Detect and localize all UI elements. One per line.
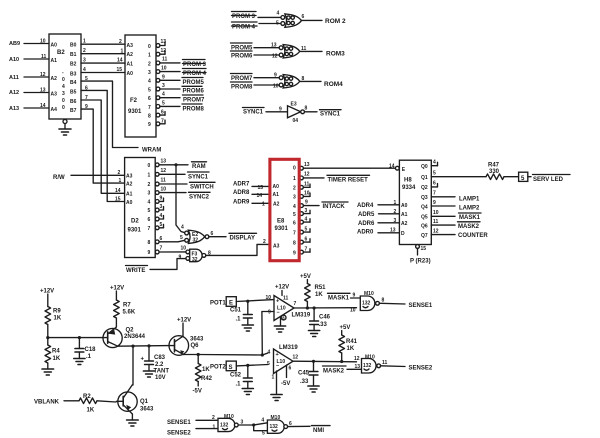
svg-text:6: 6 [161,110,164,116]
svg-text:9: 9 [353,293,356,299]
svg-text:.33: .33 [319,322,328,328]
H8 Q7 (pin 12) wire to COUNTER [431,228,455,234]
svg-text:ROM3: ROM3 [326,51,345,58]
IC B2 (decoder) body [49,34,81,119]
wire SENSE2 to gate M10c pin 1 [196,428,218,430]
svg-text:Q2: Q2 [126,328,135,334]
ground (C18) [74,359,85,365]
svg-text:5: 5 [293,212,296,218]
svg-text:MASK2: MASK2 [323,368,345,374]
transistor Q6 3643 [169,336,204,356]
svg-text:15: 15 [258,185,264,191]
net label SYNC2 [189,192,211,200]
net label SWITCH [190,182,216,190]
svg-text:B2: B2 [57,50,65,56]
svg-text:4: 4 [433,160,436,166]
svg-text:TIMER RESET: TIMER RESET [328,178,369,184]
resistor R7 5.6K [114,300,136,327]
svg-text:4: 4 [83,67,86,73]
capacitor C52 .1 [230,365,252,388]
svg-text:SYNC1: SYNC1 [188,174,209,180]
svg-text:ROM 2: ROM 2 [325,18,346,25]
svg-text:3: 3 [83,58,86,64]
wire MASK2 to gate M10b pin 13 [347,368,362,370]
svg-text:SENSE1: SENSE1 [409,303,433,309]
wire base rail to Q2 [48,337,103,339]
svg-text:6: 6 [289,421,292,427]
wire gate output pin 6 to ROM 2 [302,19,322,21]
emitter rail to op-amps [198,354,262,357]
svg-text:D2: D2 [131,219,139,225]
svg-text:.1: .1 [236,382,242,388]
ground (C45) [308,386,319,392]
wire down to Q1 collector [131,346,134,385]
wire E2 output to DISPLAY [209,236,226,238]
svg-text:C52: C52 [230,373,242,379]
net label PROM7 (at gate D8c) [231,74,254,83]
net label MASK2 (gate input) [323,366,347,374]
capacitor C46 .33 [310,308,331,331]
ground (C46) [309,331,320,337]
svg-text:A0: A0 [401,203,408,209]
svg-text:SYNC1: SYNC1 [320,112,341,118]
svg-text:5: 5 [267,361,270,367]
svg-text:A0: A0 [126,200,133,206]
svg-text:7: 7 [161,119,164,125]
inverter E3 (7404) [288,102,305,125]
connector box 5 [519,172,528,182]
svg-text:A0: A0 [51,43,58,49]
net label RAM [192,162,207,170]
red highlight box around E8 [270,159,299,260]
ground (C51) [242,325,253,331]
svg-text:L10: L10 [277,359,286,365]
svg-text:6: 6 [85,86,88,92]
svg-text:6: 6 [302,14,305,20]
resistor R47 330 [486,162,519,179]
svg-text:3: 3 [162,83,165,89]
svg-text:5: 5 [305,227,308,233]
svg-text:SYNC1: SYNC1 [243,110,264,116]
wire AB9 to B2 pin 10 [24,43,49,45]
svg-text:R9: R9 [53,309,61,315]
svg-text:H8: H8 [404,178,412,184]
svg-text:0: 0 [62,105,65,111]
wire B2.B7 down to D2.A2 [81,109,125,183]
svg-text:0: 0 [62,77,65,83]
svg-text:6: 6 [148,96,151,102]
D2 pin 9 stub (output 4) [155,196,163,204]
svg-text:C83: C83 [154,355,166,361]
net label PROM5 (at gate D8b) [231,43,254,51]
wire pin 9 from emitter rail [262,312,274,356]
svg-text:E8: E8 [277,218,285,224]
svg-text:11: 11 [283,296,289,302]
svg-text:9: 9 [305,199,308,205]
svg-text:6: 6 [160,236,163,242]
H8 Q1 (pin 5) wire to R47 [431,171,486,177]
wire ADR4 to H8.A0 pin 1 [378,204,399,206]
wire B2.B1 to F2.A2 (pin 1) [81,53,125,55]
svg-text:8: 8 [148,114,151,120]
svg-text:+: + [276,299,279,305]
ground (Q1) [127,420,139,426]
svg-text:0: 0 [293,165,296,171]
wire A11 to B2 pin 12 [24,76,49,78]
svg-text:3: 3 [148,70,151,76]
svg-text:Q7: Q7 [421,233,428,239]
svg-text:10: 10 [161,66,167,72]
capacitor C18 .1 [75,338,96,360]
wire op-amp1 pin 11 to +12V [275,285,289,302]
gate F3 (7432, bubbled in/out) to E8.A3 [179,246,212,263]
power +12V (R7 top) [110,286,124,301]
svg-text:P (R23): P (R23) [410,259,431,265]
svg-text:5: 5 [433,171,436,177]
svg-text:6: 6 [293,220,296,226]
net label PROM6 [182,86,205,94]
svg-text:R47: R47 [488,162,500,168]
H8 enable pin 14 bubble [389,163,399,170]
net label PROM7 [183,95,206,103]
wire R/W to D2.A3 pin 2 [71,174,125,176]
svg-text:DISPLAY: DISPLAY [230,236,255,242]
svg-text:AB9: AB9 [9,41,20,47]
svg-text:4: 4 [268,350,271,356]
svg-text:PROM6: PROM6 [183,89,205,95]
svg-text:E: E [229,301,233,307]
capacitor C51 .1 [230,301,252,325]
svg-text:9: 9 [148,122,151,128]
svg-text:PROM6: PROM6 [231,53,253,59]
svg-text:Q6: Q6 [421,223,428,229]
svg-text:A13: A13 [9,106,19,112]
svg-text:11: 11 [304,182,310,188]
svg-text:WRITE: WRITE [126,268,145,274]
svg-text:2: 2 [148,182,151,188]
D2 output row digits 0-9 [148,163,151,256]
svg-text:13: 13 [355,364,361,370]
D2 pin 5 stub (output 7) [155,222,163,230]
D2 output 9 (pin 7) wire to gate F3 pin 10 [155,246,186,254]
svg-text:A1: A1 [126,192,133,198]
svg-text:SENSE1: SENSE1 [167,420,191,426]
net label MASK2 [458,222,481,230]
wire gate M10d output pin 6 to NMI [288,425,310,427]
op-amp U-L10b LM319 [267,345,298,374]
resistor R41 1K [339,335,358,362]
op-amp2 pin 1 to ground [271,371,282,401]
svg-text:A3: A3 [273,243,280,249]
wire B2.B3 to F2.A0 (pin 15) [81,72,125,74]
svg-text:2: 2 [118,170,121,176]
svg-text:1: 1 [83,39,86,45]
svg-text:1: 1 [213,425,216,431]
svg-text:PROM5: PROM5 [183,80,205,86]
wire Q6 emitter to junction [184,354,199,356]
F2 pin 11 output 2 wire to PROM 3 [156,57,180,65]
svg-text:0: 0 [148,163,151,169]
svg-text:SYNC2: SYNC2 [189,195,210,201]
svg-text:12: 12 [40,72,46,78]
wire gate output pin 11 to ROM3 [300,50,322,52]
svg-text:+5V: +5V [300,274,311,280]
net label WRITE [126,266,148,274]
svg-text:1K: 1K [315,292,323,298]
svg-text:A3: A3 [127,43,134,49]
wire POT2 to op-amp pin 5 [236,365,268,366]
junction R9/R4 [46,336,49,339]
svg-text:S: S [229,365,233,371]
F2 pin 9 output 4 wire to PROM5 [156,75,180,83]
svg-text:6: 6 [305,237,308,243]
svg-text:2: 2 [293,186,296,192]
H8 reset pin 15 bubble and P (R23) [410,245,431,265]
gate M10d (74132 NAND) NMI [267,415,287,433]
E8 pin 4 stub (output 6) [300,217,310,225]
svg-text:2: 2 [394,209,397,215]
wire PROM4 to gate pin 5 [259,23,281,25]
svg-text:13: 13 [390,228,396,234]
net label PROM 3 (crossed, at gate D8a) [232,12,257,21]
svg-text:11: 11 [41,54,47,60]
wire ADR5 to H8.A1 pin 2 [379,213,400,215]
svg-text:6: 6 [289,366,292,372]
wire ADR6 to H8.A2 pin 3 [378,222,399,224]
svg-text:3: 3 [160,204,163,210]
wire op-amp1 output pin 7 [294,307,357,309]
svg-text:9: 9 [433,200,436,206]
svg-text:PROM8: PROM8 [231,84,253,90]
svg-text:8: 8 [302,76,305,82]
svg-text:A1: A1 [401,212,408,218]
svg-text:9: 9 [162,75,165,81]
svg-text:8: 8 [148,240,151,246]
svg-text:9: 9 [85,104,88,110]
power +12V (Q6 collector) [177,318,191,337]
wire gate M10a output pin 8 to SENSE1 [379,302,405,305]
net label SYNC1 (inverter output) [320,110,342,118]
svg-text:ADR5: ADR5 [358,212,375,218]
F2 pin 7 stub (output 9) [156,119,165,126]
svg-text:A3: A3 [126,174,133,180]
net label SYNC1 (input to inverter E3) [243,108,265,116]
E8 pin 10 stub (output 3) [300,190,310,198]
wire gate M10c output pin 3 to gate M10d [238,423,267,425]
gate M10b (74132 NAND) SENSE2 [362,355,381,374]
net label DISPLAY [229,233,257,241]
H8 pin 6 stub (Q2) [431,181,437,187]
wire WRITE to gate F3 pin 9 [150,259,186,270]
svg-text:B3: B3 [70,72,77,78]
wire PROM7 to gate pin 9 [254,77,279,79]
svg-text:9: 9 [268,310,271,316]
svg-text:7: 7 [293,230,296,236]
svg-text:B7: B7 [70,108,77,114]
E8 pin 6 stub (output 8) [300,237,310,245]
junction C18 [78,336,81,339]
svg-text:ROM4: ROM4 [324,81,343,88]
svg-text:A2: A2 [273,201,280,207]
svg-text:12: 12 [304,172,310,178]
net label PROM8 [182,104,205,113]
svg-text:1: 1 [394,200,397,206]
svg-text:A2: A2 [127,52,134,58]
svg-text:5: 5 [148,208,151,214]
svg-text:04: 04 [293,118,299,124]
wire F3 output to E8.A3 pin 2 [206,244,270,255]
E8 output 0 (pin 13) wire to H8 enable [300,162,395,170]
gate D8a (ROM 2 OR gate, bubbled inputs) [281,14,302,27]
F2 pin 3 output 5 wire to PROM6 [156,83,180,91]
svg-text:5: 5 [162,101,165,107]
svg-text:13: 13 [161,39,167,45]
svg-text:10: 10 [433,210,439,216]
svg-text:9: 9 [148,250,151,256]
svg-text:A0: A0 [127,71,134,77]
E8 pin 3 stub (output 5) [300,208,310,216]
D2 output 1 (pin 12) wire to SYNC1 [155,168,185,176]
connector box E (POT1) [226,297,236,307]
gate M10a (74132 NAND) SENSE1 [360,291,379,311]
connector box S (POT2) [226,361,236,371]
svg-text:+12V: +12V [275,285,289,291]
svg-text:3643: 3643 [140,407,154,413]
wire box to SERV LED [528,176,531,178]
wire branch to pin 5 [254,425,268,431]
svg-text:3: 3 [305,208,308,214]
svg-text:1: 1 [148,53,151,59]
svg-text:ADR4: ADR4 [357,203,374,209]
wire B2.B0 to F2.A3 (pin 2) [81,43,125,45]
net label INTACK [322,202,348,210]
svg-text:12: 12 [433,228,439,234]
svg-text:3643: 3643 [190,337,204,343]
svg-text:7: 7 [433,191,436,197]
svg-text:Q3: Q3 [421,195,428,201]
svg-text:10: 10 [350,308,356,314]
svg-text:1K: 1K [347,346,355,352]
svg-text:VBLANK: VBLANK [34,400,60,406]
svg-text:L10: L10 [277,306,286,312]
svg-text:7: 7 [85,95,88,101]
svg-text:POT1: POT1 [210,301,226,307]
resistor R4 1K [45,338,61,369]
wire VBLANK to R2 [64,400,79,402]
svg-text:B1: B1 [70,52,77,58]
svg-text:132: 132 [270,424,279,430]
IC D2 9301 body [125,158,156,258]
svg-text:6: 6 [433,181,436,187]
svg-text:9: 9 [293,250,296,256]
svg-text:D: D [401,231,405,237]
net label TIMER RESET [327,175,370,183]
svg-text:COUNTER: COUNTER [458,233,488,239]
svg-text:13: 13 [304,162,310,168]
svg-text:LAMP1: LAMP1 [459,196,480,202]
F2 pin 4 output 6 wire to PROM7 [156,92,180,100]
svg-text:1: 1 [272,375,275,381]
svg-text:+12V: +12V [177,318,191,324]
capacitor C45 .33 [298,361,318,386]
svg-text:A1: A1 [273,192,280,198]
wire PROM8 to gate pin 10 [254,84,279,86]
svg-text:R42: R42 [201,376,213,382]
svg-text:.1: .1 [236,317,242,323]
wire POT1 to op-amp L10 pin 10 [236,300,274,302]
svg-text:MASK2: MASK2 [458,224,480,230]
D2 output 8 (pin 6) wire to gate E2 pin 5 [155,236,185,244]
svg-text:15: 15 [117,67,123,73]
svg-text:9: 9 [179,255,182,261]
svg-text:14: 14 [115,188,121,194]
svg-text:32: 32 [192,257,198,263]
svg-text:R41: R41 [346,339,358,345]
IC E8 9301 labels (inside red box) [273,165,297,256]
H8 Q3 (pin 7) wire to LAMP1 [431,191,455,197]
svg-text:R/W: R/W [53,175,65,181]
svg-text:Q1: Q1 [421,175,428,181]
svg-text:R7: R7 [123,303,131,309]
F2 pin 12 stub (output 1) [156,48,166,56]
svg-text:7: 7 [148,226,151,232]
svg-text:9301: 9301 [128,109,142,115]
svg-text:4: 4 [148,199,151,205]
svg-text:132: 132 [362,301,371,307]
svg-text:1: 1 [262,202,265,208]
svg-text:2: 2 [148,61,151,67]
power +5V (R51) [300,274,311,284]
net label SERV LED [533,175,571,183]
junction to C83 [147,344,150,347]
svg-text:A2: A2 [126,182,133,188]
wire PROM3 to gate pin 4 [258,16,281,18]
svg-text:A1: A1 [127,62,134,68]
svg-text:2: 2 [119,39,122,45]
H8 pin 4 stub (Q0) [431,160,437,166]
svg-text:-5V: -5V [281,381,290,387]
E8 pin 7 stub (output 9) [300,247,310,255]
svg-text:C18: C18 [85,347,97,353]
svg-text:15: 15 [115,197,121,203]
svg-text:13: 13 [161,159,167,165]
svg-text:1K: 1K [87,408,95,414]
wire B2.B2 to F2.A1 (pin 14) [81,62,125,64]
wire Q1 emitter to ground [131,414,133,420]
svg-text:SENSE2: SENSE2 [167,430,191,436]
wire SENSE1 to gate M10c pin 2 [196,419,218,421]
svg-text:Q0: Q0 [421,164,428,170]
svg-text:TANT: TANT [154,369,170,375]
svg-text:9301: 9301 [128,228,142,234]
svg-text:MASK1: MASK1 [328,296,350,302]
svg-text:13: 13 [271,43,277,49]
svg-text:32: 32 [193,238,199,244]
svg-text:7: 7 [160,246,163,252]
resistor R51 1K [305,284,327,309]
svg-text:1: 1 [148,172,151,178]
svg-text:12: 12 [161,48,167,54]
svg-text:8: 8 [382,298,385,304]
svg-text:9334: 9334 [402,185,416,191]
svg-text:ADR8: ADR8 [233,190,250,196]
svg-text:5: 5 [276,21,279,27]
svg-text:10: 10 [273,84,279,90]
ground (R4) [42,369,54,375]
gate E2 (7432 OR, bubbled in/out) DISPLAY [180,225,214,244]
svg-text:5: 5 [148,87,151,93]
wire R2 to Q1 base [97,401,116,402]
